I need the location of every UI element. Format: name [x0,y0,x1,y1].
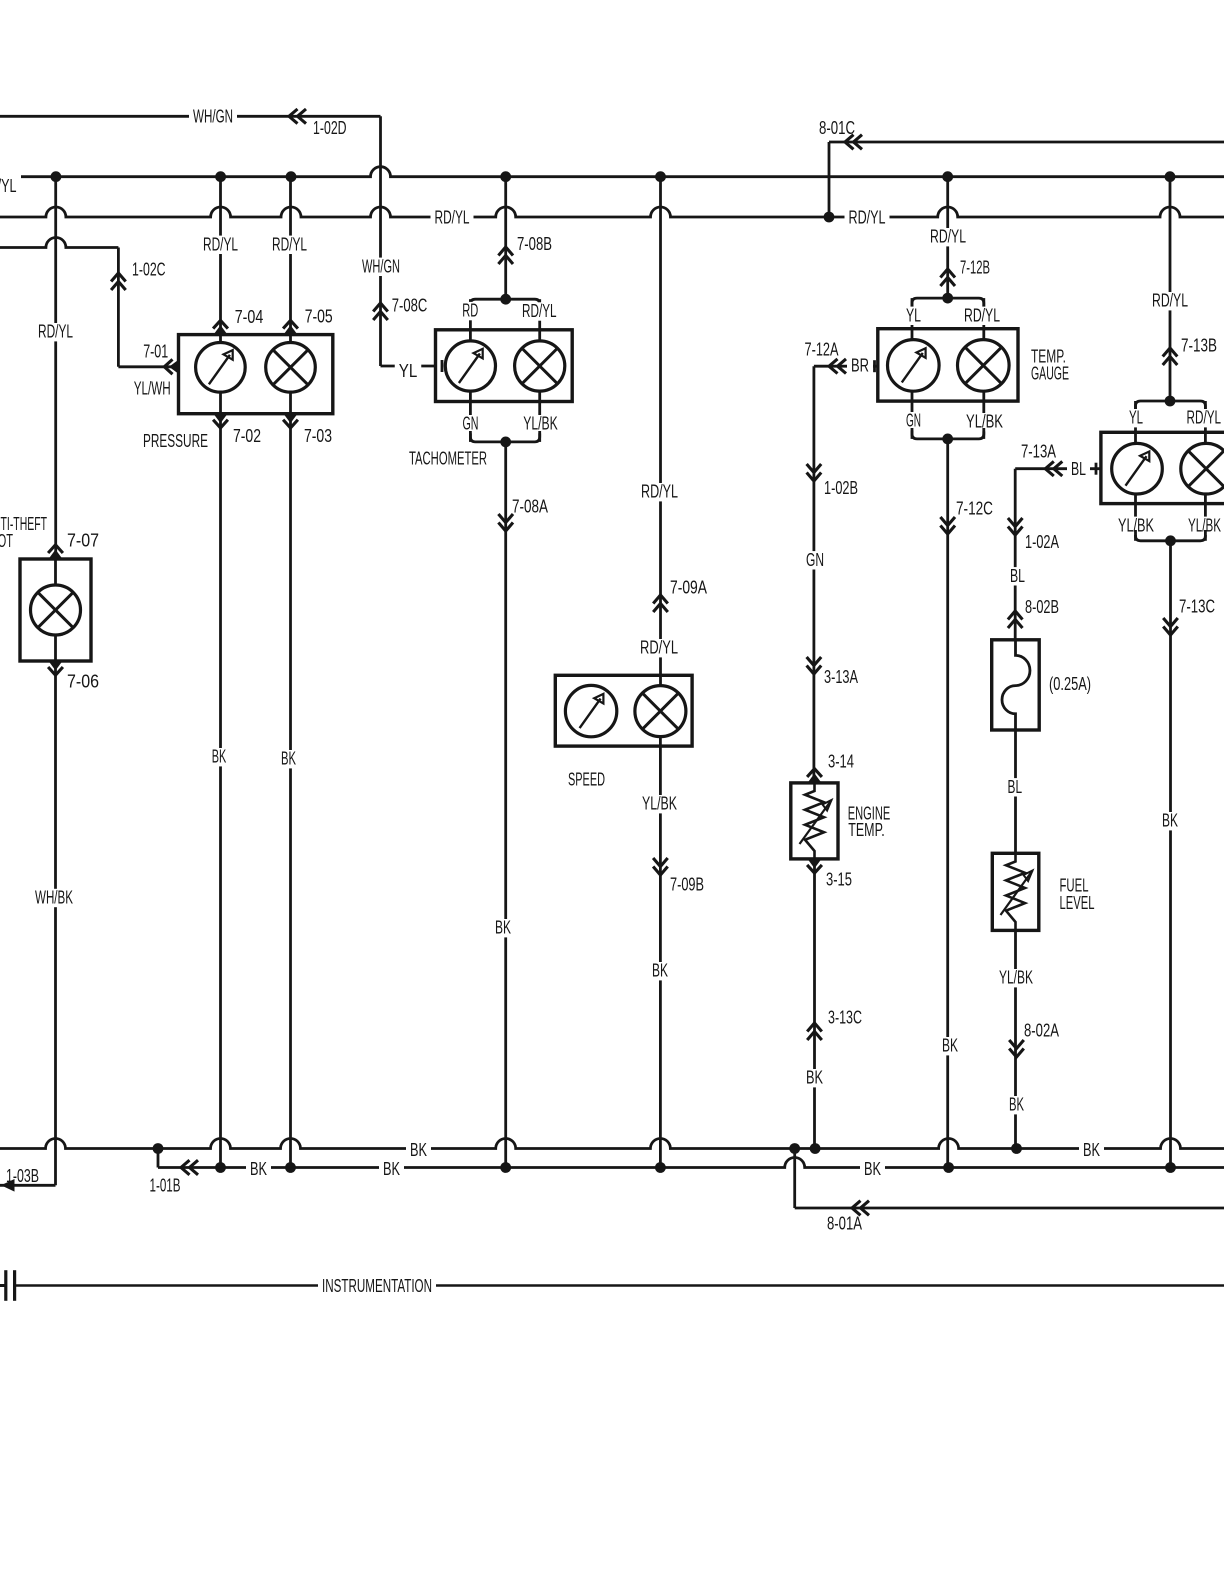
svg-text:BK: BK [495,918,511,938]
svg-text:BK: BK [806,1068,823,1088]
svg-text:BR: BR [851,356,869,376]
svg-text:1-02B: 1-02B [824,478,858,498]
svg-text:7-04: 7-04 [235,307,264,327]
svg-text:3-13C: 3-13C [828,1008,862,1028]
svg-text:INSTRUMENTATION: INSTRUMENTATION [322,1276,432,1296]
svg-text:1-03B: 1-03B [6,1166,39,1186]
svg-text:BL: BL [1071,459,1086,479]
svg-text:8-01A: 8-01A [827,1214,862,1234]
svg-text:7-06: 7-06 [67,672,99,692]
svg-text:RD/YL: RD/YL [849,207,886,227]
svg-text:1-01B: 1-01B [150,1176,181,1196]
svg-text:8-02B: 8-02B [1025,597,1059,617]
svg-text:RD/YL: RD/YL [640,638,678,658]
svg-text:YL: YL [1129,408,1143,428]
svg-text:7-01: 7-01 [143,341,168,361]
svg-text:LEVEL: LEVEL [1060,893,1095,913]
svg-text:BL: BL [1010,566,1025,586]
svg-text:WH/BK: WH/BK [35,888,73,908]
svg-text:RD/YL: RD/YL [641,482,678,502]
svg-text:RD/YL: RD/YL [930,227,966,247]
svg-text:3-15: 3-15 [826,870,852,890]
svg-text:7-13A: 7-13A [1021,442,1056,462]
svg-text:RD: RD [462,301,478,321]
svg-text:SPEED: SPEED [568,770,605,790]
svg-text:YL: YL [399,361,418,381]
svg-text:YL/BK: YL/BK [999,968,1033,988]
svg-text:7-07: 7-07 [67,531,99,551]
svg-text:1-02A: 1-02A [1025,532,1059,552]
svg-text:7-08C: 7-08C [392,296,428,316]
svg-text:7-12B: 7-12B [960,258,990,278]
svg-text:TACHOMETER: TACHOMETER [409,449,487,469]
svg-text:(0.25A): (0.25A) [1049,674,1091,694]
svg-text:1-02D: 1-02D [313,118,347,138]
svg-text:7-08A: 7-08A [512,497,548,517]
svg-text:RD/YL: RD/YL [272,234,307,254]
svg-text:BK: BK [250,1159,267,1179]
svg-text:BL: BL [1008,777,1023,797]
svg-text:BK: BK [864,1159,881,1179]
svg-text:WH/GN: WH/GN [193,106,233,126]
svg-text:RD/YL: RD/YL [435,207,470,227]
svg-text:WH/GN: WH/GN [362,256,400,276]
svg-text:GN: GN [463,414,479,434]
svg-text:RD/YL: RD/YL [203,234,238,254]
svg-text:GAUGE: GAUGE [1031,364,1069,384]
svg-text:GN: GN [806,550,824,570]
svg-text:7-09A: 7-09A [670,578,707,598]
svg-text:RD/YL: RD/YL [964,305,1000,325]
svg-text:TEMP.: TEMP. [848,820,885,840]
svg-text:3-13A: 3-13A [824,667,858,687]
svg-text:YL: YL [906,305,921,325]
svg-text:BK: BK [212,747,227,767]
svg-text:7-03: 7-03 [304,426,332,446]
svg-text:RD/YL: RD/YL [38,322,73,342]
svg-text:BK: BK [652,961,668,981]
svg-text:YL/WH: YL/WH [134,379,171,399]
svg-text:8-02A: 8-02A [1024,1021,1059,1041]
svg-text:BK: BK [1009,1095,1024,1115]
svg-text:PILOT: PILOT [0,531,13,551]
svg-text:RD/YL: RD/YL [522,301,557,321]
svg-text:YL/BK: YL/BK [523,414,558,434]
svg-text:7-05: 7-05 [305,306,333,326]
svg-text:PRESSURE: PRESSURE [143,431,208,451]
svg-text:7-12C: 7-12C [956,499,993,519]
svg-text:BK: BK [383,1159,400,1179]
svg-text:BK: BK [410,1140,427,1160]
svg-text:RD/YL: RD/YL [0,176,17,196]
svg-text:7-08B: 7-08B [517,234,552,254]
svg-text:8-01C: 8-01C [819,118,855,138]
svg-text:7-13C: 7-13C [1179,597,1215,617]
svg-text:BK: BK [281,749,296,769]
svg-text:BK: BK [942,1036,958,1056]
svg-text:RD/YL: RD/YL [1187,408,1222,428]
svg-text:GN: GN [906,411,921,431]
svg-text:1-02C: 1-02C [132,260,166,280]
svg-text:YL/BK: YL/BK [642,794,677,814]
svg-text:7-12A: 7-12A [805,339,839,359]
svg-text:7-13B: 7-13B [1181,336,1217,356]
svg-text:BK: BK [1083,1140,1100,1160]
svg-text:RD/YL: RD/YL [1152,291,1188,311]
svg-text:BK: BK [1162,811,1178,831]
svg-text:3-14: 3-14 [828,752,854,772]
svg-text:7-09B: 7-09B [670,875,704,895]
svg-text:7-02: 7-02 [233,426,261,446]
